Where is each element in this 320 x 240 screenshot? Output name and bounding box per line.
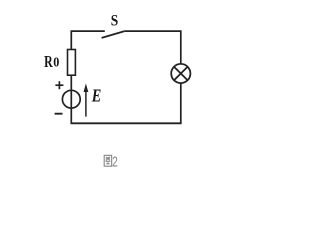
wire: top-right segment from switch to lamp	[124, 31, 181, 64]
wire: bottom segment	[71, 122, 182, 124]
lamp	[171, 64, 190, 83]
wire: right segment below lamp	[180, 83, 182, 123]
resistor R0	[68, 50, 76, 76]
svg-text:R: R	[44, 53, 53, 72]
svg-text:E: E	[91, 87, 101, 106]
svg-text:S: S	[111, 13, 118, 30]
svg-text:0: 0	[53, 55, 59, 70]
wire: left-top segment from resistor up and right to switch contact	[71, 31, 105, 49]
EMF direction arrow	[84, 84, 89, 117]
switch S blade	[102, 31, 125, 38]
caption glyph 图 (drawn as vector strokes)	[104, 155, 111, 166]
wire: left segment through source down to bottom	[70, 76, 72, 124]
plus terminal mark	[55, 81, 63, 89]
minus terminal mark	[55, 113, 63, 115]
source E circle	[62, 90, 80, 108]
svg-text:2: 2	[112, 153, 118, 171]
